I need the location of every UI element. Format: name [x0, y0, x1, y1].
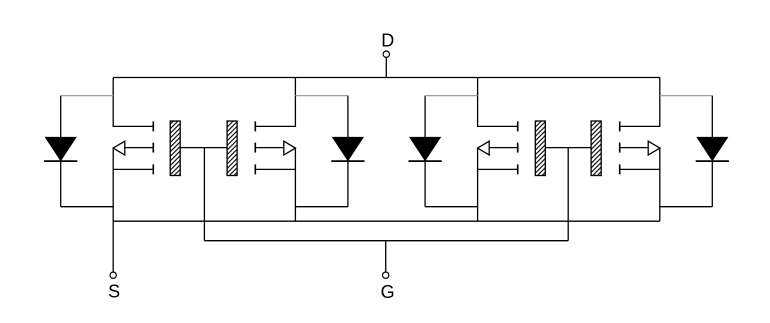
diode D4: [696, 96, 729, 207]
diode D3: [409, 96, 442, 207]
node G terminal lead: [385, 241, 387, 272]
D terminal circle: [383, 51, 389, 57]
wire: pair2 gate drop: [567, 148, 569, 241]
transistor Q2: [227, 78, 295, 176]
wire: diode D4 top connection: [660, 95, 713, 97]
node D terminal lead: [385, 57, 387, 77]
label G: [381, 282, 395, 302]
wire: Q3-Q4 gate link: [545, 147, 591, 149]
svg-text:D: D: [381, 31, 394, 51]
wire: Q4 source/body vertical: [659, 148, 661, 222]
transistor Q3: [478, 78, 546, 176]
wire: Q2 source/body vertical: [294, 148, 296, 222]
wire: gate bus: [204, 240, 568, 242]
transistor Q4: [591, 78, 660, 176]
label D: [381, 31, 394, 51]
wire: Q1 source/body vertical to S: [112, 148, 114, 272]
wire: diode D2 bottom connection: [295, 206, 348, 208]
svg-text:S: S: [108, 282, 120, 302]
wire: Q1-Q2 gate link: [180, 147, 227, 149]
wire: diode D3 bottom connection: [425, 206, 478, 208]
wire: diode D3 top connection: [425, 95, 478, 97]
S terminal circle: [110, 272, 116, 278]
wire: top drain rail: [113, 77, 660, 79]
transistor Q1: [113, 78, 180, 176]
diode D2: [331, 96, 364, 207]
diode D1: [44, 96, 77, 207]
G terminal circle: [383, 272, 389, 278]
svg-text:G: G: [381, 282, 395, 302]
label S: [108, 282, 120, 302]
wire: pair1 gate drop: [203, 148, 205, 241]
wire: diode D2 top connection: [295, 95, 348, 97]
wire: diode D4 bottom connection: [660, 206, 713, 208]
wire: source bus: [113, 220, 660, 222]
wire: diode D1 bottom connection: [61, 206, 113, 208]
wire: Q3 source/body vertical: [477, 148, 479, 222]
wire: diode D1 top connection: [61, 95, 113, 97]
